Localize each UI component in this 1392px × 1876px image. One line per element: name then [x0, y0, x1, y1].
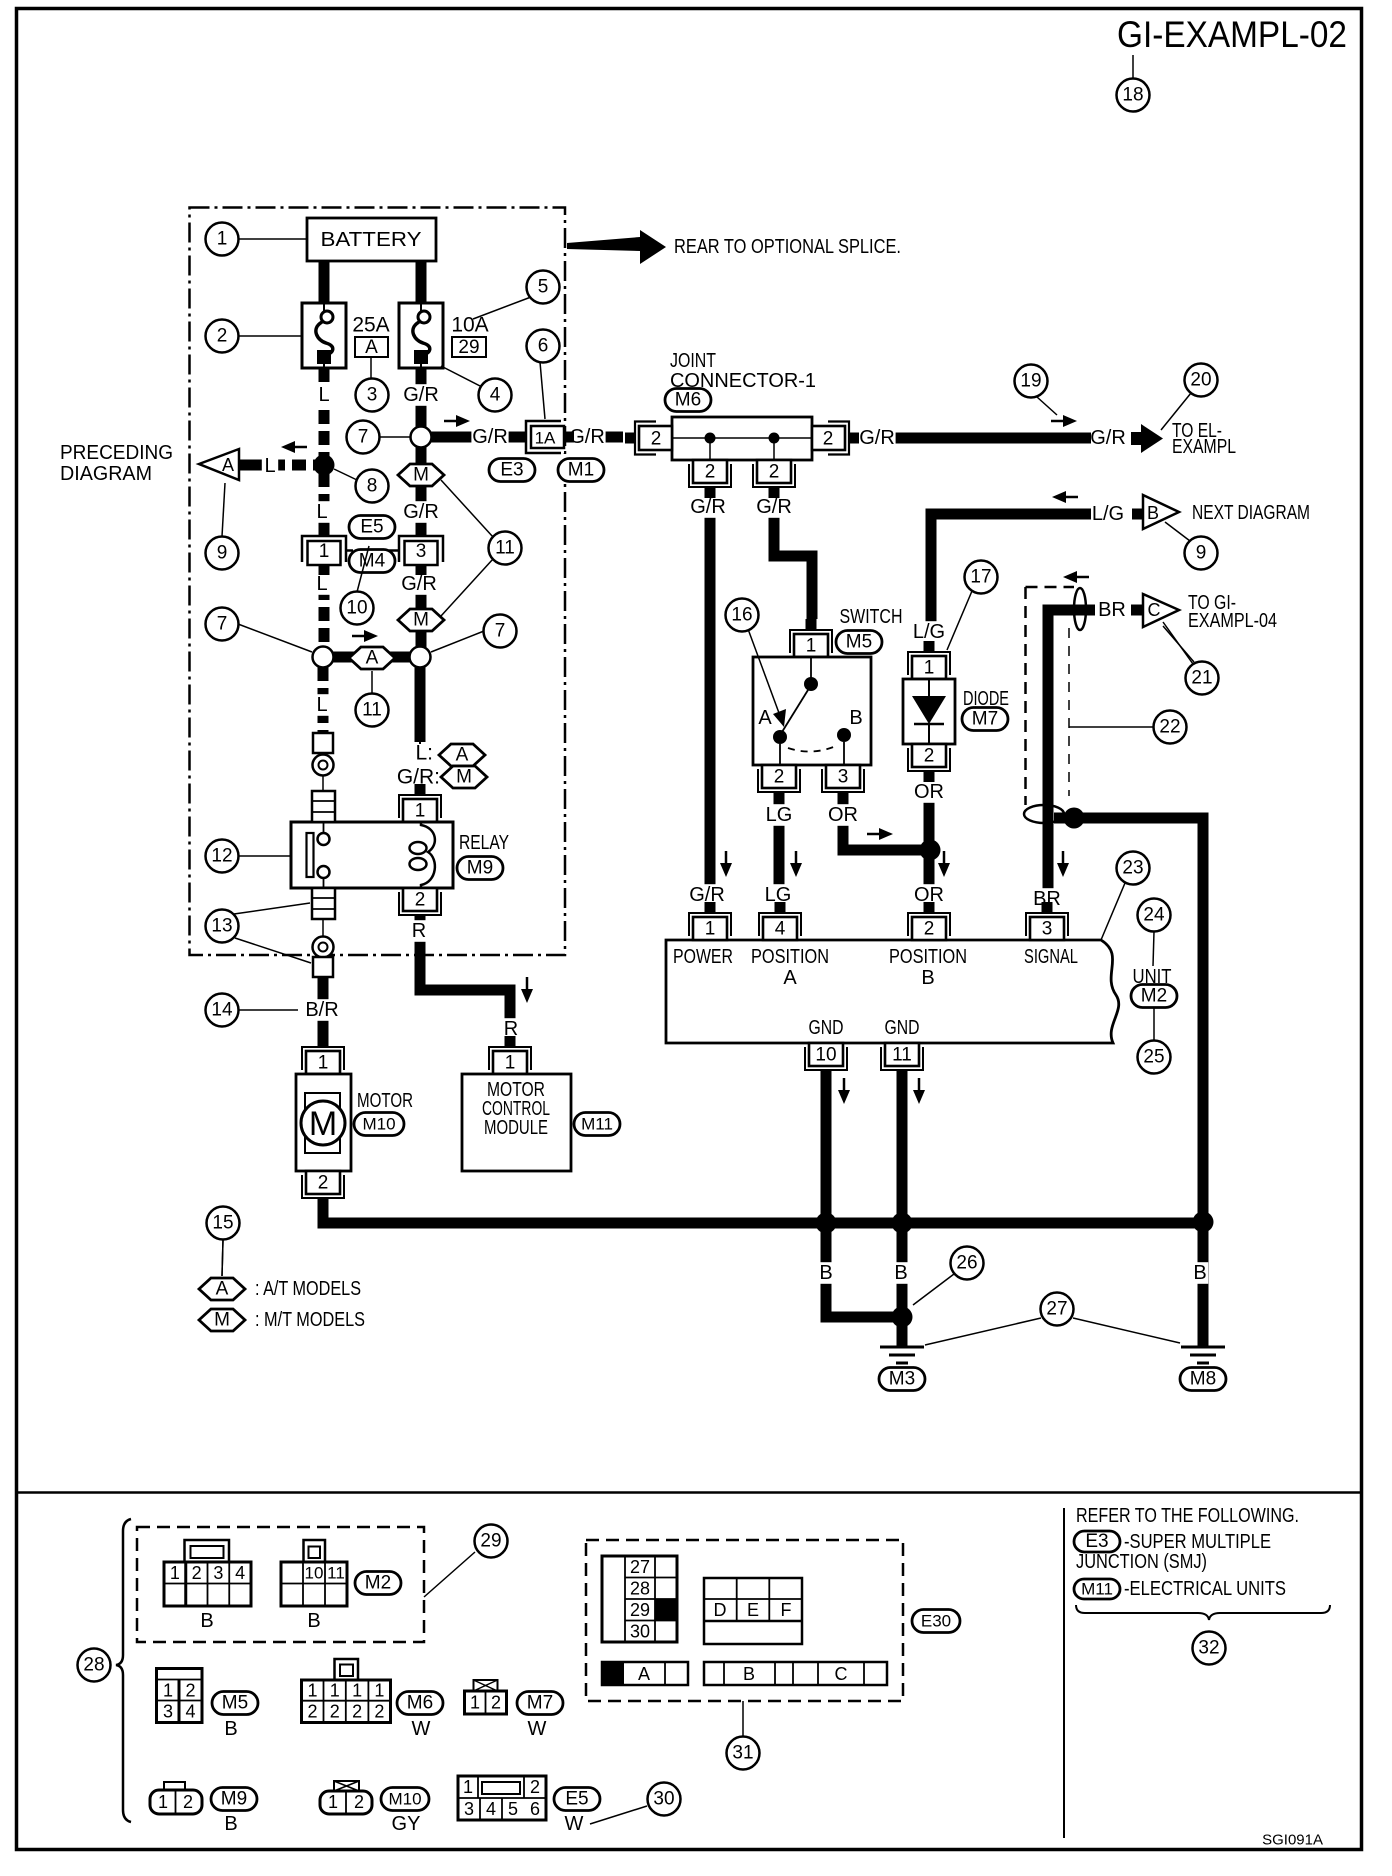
svg-text:BATTERY: BATTERY	[321, 229, 422, 251]
svg-text:: A/T MODELS: : A/T MODELS	[255, 1278, 361, 1300]
svg-text:2: 2	[192, 1563, 202, 1583]
svg-text:JUNCTION (SMJ): JUNCTION (SMJ)	[1076, 1551, 1207, 1573]
svg-text:10A: 10A	[451, 314, 488, 337]
svg-text:2: 2	[774, 767, 785, 788]
svg-text:L: L	[318, 384, 329, 406]
svg-text:E5: E5	[360, 517, 383, 538]
svg-text:B: B	[819, 1262, 832, 1284]
svg-text:GY: GY	[392, 1813, 421, 1835]
svg-text:27: 27	[630, 1557, 650, 1577]
svg-text:M11: M11	[581, 1115, 613, 1134]
svg-text:REAR TO OPTIONAL SPLICE.: REAR TO OPTIONAL SPLICE.	[674, 236, 901, 258]
svg-text:B: B	[1193, 1262, 1206, 1284]
svg-text:MOTOR: MOTOR	[357, 1090, 413, 1112]
svg-text:M2: M2	[365, 1573, 391, 1594]
svg-text:2: 2	[318, 1173, 329, 1194]
svg-text:20: 20	[1190, 370, 1211, 391]
svg-text:M10: M10	[362, 1115, 395, 1134]
svg-text:29: 29	[458, 337, 479, 358]
svg-text:2: 2	[651, 429, 662, 450]
svg-text:BR: BR	[1098, 599, 1126, 621]
svg-text:32: 32	[1198, 1638, 1219, 1659]
svg-text:G/R: G/R	[403, 384, 439, 406]
svg-text:1: 1	[307, 1681, 317, 1701]
svg-text:2: 2	[491, 1693, 501, 1713]
svg-text:B: B	[307, 1610, 320, 1632]
svg-text:5: 5	[508, 1799, 518, 1819]
svg-text:B: B	[200, 1610, 213, 1632]
svg-text:22: 22	[1159, 717, 1180, 738]
svg-text:D: D	[714, 1600, 727, 1620]
svg-text:L: L	[264, 455, 275, 477]
svg-text:3: 3	[1042, 919, 1053, 940]
svg-text:G/R: G/R	[1090, 427, 1126, 449]
svg-text:1: 1	[352, 1681, 362, 1701]
svg-text:1: 1	[924, 658, 935, 679]
svg-text:A: A	[222, 455, 234, 475]
svg-text:RELAY: RELAY	[459, 832, 509, 854]
svg-text:L: L	[316, 573, 327, 595]
svg-text:G/R: G/R	[401, 573, 437, 595]
svg-text:E30: E30	[921, 1612, 951, 1631]
svg-text:16: 16	[731, 605, 752, 626]
svg-text:3: 3	[838, 767, 849, 788]
svg-text:1: 1	[158, 1792, 168, 1812]
svg-text:27: 27	[1046, 1299, 1067, 1320]
svg-text:A: A	[456, 745, 469, 766]
svg-text:15: 15	[212, 1213, 233, 1234]
svg-text:M3: M3	[889, 1369, 915, 1390]
svg-text:18: 18	[1122, 85, 1143, 106]
svg-text:M: M	[413, 465, 429, 486]
svg-text:1: 1	[170, 1563, 180, 1583]
svg-text:1: 1	[374, 1681, 384, 1701]
svg-text:M11: M11	[1081, 1580, 1113, 1599]
svg-text:M7: M7	[527, 1693, 553, 1714]
svg-text:30: 30	[653, 1789, 674, 1810]
svg-text:4: 4	[486, 1799, 496, 1819]
svg-text:R: R	[412, 920, 426, 942]
svg-text:POSITION: POSITION	[751, 946, 829, 968]
svg-text:6: 6	[538, 336, 549, 357]
svg-text:2: 2	[530, 1777, 540, 1797]
svg-text:9: 9	[1196, 543, 1207, 564]
svg-text:W: W	[528, 1718, 547, 1740]
svg-text:11: 11	[362, 700, 382, 721]
svg-text:DIAGRAM: DIAGRAM	[60, 463, 152, 485]
svg-text:L: L	[316, 694, 327, 716]
svg-text:SIGNAL: SIGNAL	[1024, 946, 1078, 968]
svg-text:M2: M2	[1141, 986, 1167, 1007]
svg-text:OR: OR	[828, 804, 858, 826]
svg-text:1: 1	[163, 1681, 173, 1701]
svg-text:B/R: B/R	[305, 999, 338, 1021]
svg-text:1A: 1A	[535, 429, 556, 448]
svg-text:M: M	[413, 610, 429, 631]
svg-text:17: 17	[970, 567, 991, 588]
svg-text:28: 28	[83, 1655, 104, 1676]
svg-text:2: 2	[185, 1681, 195, 1701]
svg-text:2: 2	[415, 890, 426, 911]
svg-text:M9: M9	[467, 858, 493, 879]
svg-text:1: 1	[470, 1693, 480, 1713]
svg-text:2: 2	[374, 1702, 384, 1722]
svg-text:E3: E3	[1085, 1531, 1108, 1552]
svg-text:B: B	[1147, 503, 1159, 523]
svg-text:7: 7	[217, 614, 228, 635]
svg-text:EXAMPL-04: EXAMPL-04	[1188, 610, 1277, 632]
svg-text:REFER TO THE FOLLOWING.: REFER TO THE FOLLOWING.	[1076, 1505, 1299, 1527]
svg-text:PRECEDING: PRECEDING	[60, 442, 173, 464]
svg-text:11: 11	[892, 1045, 912, 1066]
svg-text:NEXT DIAGRAM: NEXT DIAGRAM	[1192, 502, 1310, 524]
svg-text:C: C	[1148, 600, 1161, 620]
svg-text:M6: M6	[407, 1693, 433, 1714]
svg-text:G/R: G/R	[690, 496, 726, 518]
svg-text:30: 30	[630, 1622, 650, 1642]
svg-text:3: 3	[163, 1702, 173, 1722]
svg-text:26: 26	[956, 1253, 977, 1274]
svg-text:2: 2	[307, 1702, 317, 1722]
svg-text:7: 7	[495, 621, 506, 642]
svg-text:3: 3	[213, 1563, 223, 1583]
svg-text:5: 5	[538, 277, 549, 298]
svg-text:2: 2	[354, 1792, 364, 1812]
svg-text:GI-EXAMPL-02: GI-EXAMPL-02	[1117, 14, 1347, 55]
svg-text:31: 31	[732, 1743, 753, 1764]
svg-text:M7: M7	[972, 709, 998, 730]
svg-text:10: 10	[305, 1564, 324, 1583]
svg-text:M1: M1	[568, 460, 594, 481]
svg-text:M5: M5	[222, 1693, 248, 1714]
svg-text:23: 23	[1122, 858, 1143, 879]
svg-text:7: 7	[358, 427, 369, 448]
svg-text:W: W	[412, 1718, 431, 1740]
svg-text:10: 10	[346, 598, 367, 619]
svg-text:9: 9	[217, 543, 228, 564]
svg-text:A: A	[366, 648, 379, 669]
svg-text:2: 2	[924, 919, 935, 940]
svg-text:L:: L:	[415, 742, 433, 765]
svg-text:M5: M5	[846, 632, 872, 653]
svg-text:L/G: L/G	[1092, 503, 1124, 525]
svg-text:24: 24	[1143, 905, 1165, 926]
svg-text:SGI091A: SGI091A	[1262, 1832, 1323, 1849]
svg-text:A: A	[365, 337, 378, 358]
svg-text:25: 25	[1143, 1047, 1164, 1068]
svg-text:B: B	[849, 707, 862, 729]
svg-text:E: E	[747, 1600, 759, 1620]
svg-text:28: 28	[630, 1579, 650, 1599]
svg-text:GND: GND	[809, 1017, 844, 1039]
svg-text:B: B	[224, 1718, 237, 1740]
svg-text:W: W	[565, 1813, 584, 1835]
svg-text:1: 1	[319, 541, 330, 562]
svg-text:2: 2	[352, 1702, 362, 1722]
svg-text:25A: 25A	[352, 314, 389, 337]
svg-text:EXAMPL: EXAMPL	[1172, 436, 1236, 458]
svg-text:SWITCH: SWITCH	[840, 606, 903, 628]
svg-text:A: A	[758, 707, 772, 729]
svg-text:M: M	[456, 767, 472, 788]
svg-text:E5: E5	[565, 1789, 588, 1810]
svg-text:F: F	[781, 1600, 792, 1620]
svg-text:OR: OR	[914, 781, 944, 803]
svg-text:M8: M8	[1190, 1369, 1216, 1390]
svg-text:MODULE: MODULE	[484, 1117, 548, 1139]
svg-text:-SUPER MULTIPLE: -SUPER MULTIPLE	[1124, 1531, 1271, 1553]
svg-text:1: 1	[318, 1053, 329, 1074]
svg-text:2: 2	[769, 462, 780, 483]
svg-text:POSITION: POSITION	[889, 946, 967, 968]
svg-text:G/R: G/R	[472, 426, 508, 448]
svg-text:A: A	[216, 1279, 229, 1300]
svg-text:3: 3	[367, 385, 378, 406]
svg-text:1: 1	[328, 1792, 338, 1812]
svg-text:G/R: G/R	[859, 427, 895, 449]
svg-text:1: 1	[330, 1681, 340, 1701]
svg-text:L/G: L/G	[913, 621, 945, 643]
svg-text:11: 11	[327, 1564, 345, 1583]
svg-text:POWER: POWER	[673, 946, 733, 968]
svg-text:2: 2	[183, 1792, 193, 1812]
svg-text:2: 2	[823, 429, 834, 450]
svg-text:1: 1	[806, 636, 817, 657]
svg-text:C: C	[835, 1664, 848, 1684]
svg-text:29: 29	[480, 1531, 501, 1552]
svg-text:B: B	[743, 1664, 755, 1684]
svg-text:LG: LG	[766, 804, 793, 826]
svg-text:2: 2	[217, 326, 228, 347]
svg-text:4: 4	[490, 385, 501, 406]
svg-text:B: B	[894, 1262, 907, 1284]
svg-text:L: L	[316, 501, 327, 523]
svg-text:14: 14	[211, 1000, 233, 1021]
svg-text:: M/T MODELS: : M/T MODELS	[255, 1309, 365, 1331]
svg-text:M: M	[309, 1105, 337, 1143]
svg-text:29: 29	[630, 1600, 650, 1620]
svg-text:4: 4	[235, 1563, 245, 1583]
svg-text:2: 2	[330, 1702, 340, 1722]
svg-text:13: 13	[211, 916, 232, 937]
svg-text:12: 12	[211, 846, 232, 867]
svg-text:1: 1	[463, 1777, 473, 1797]
svg-text:-ELECTRICAL UNITS: -ELECTRICAL UNITS	[1124, 1578, 1286, 1600]
svg-text:1: 1	[217, 229, 228, 250]
svg-text:B: B	[224, 1813, 237, 1835]
svg-text:4: 4	[775, 919, 786, 940]
svg-text:3: 3	[464, 1799, 474, 1819]
svg-text:GND: GND	[885, 1017, 920, 1039]
svg-text:M6: M6	[675, 390, 701, 411]
svg-text:G/R: G/R	[756, 496, 792, 518]
svg-text:M9: M9	[221, 1789, 247, 1810]
svg-text:1: 1	[705, 919, 716, 940]
svg-text:4: 4	[185, 1702, 195, 1722]
svg-text:2: 2	[705, 462, 716, 483]
svg-text:11: 11	[495, 538, 515, 559]
svg-text:A: A	[783, 967, 797, 989]
svg-text:A: A	[638, 1664, 650, 1684]
svg-text:M10: M10	[388, 1790, 421, 1809]
svg-text:2: 2	[924, 746, 935, 767]
svg-text:E3: E3	[500, 460, 523, 481]
svg-text:10: 10	[815, 1045, 836, 1066]
svg-text:M: M	[214, 1310, 230, 1331]
svg-text:19: 19	[1020, 371, 1041, 392]
svg-text:B: B	[921, 967, 934, 989]
svg-text:3: 3	[416, 541, 427, 562]
svg-text:8: 8	[367, 476, 378, 497]
svg-text:1: 1	[415, 801, 426, 822]
svg-text:6: 6	[530, 1799, 540, 1819]
svg-text:G/R: G/R	[403, 501, 439, 523]
svg-text:1: 1	[505, 1053, 516, 1074]
svg-text:G/R: G/R	[569, 426, 605, 448]
svg-text:21: 21	[1191, 668, 1212, 689]
svg-text:JOINT: JOINT	[670, 350, 716, 372]
